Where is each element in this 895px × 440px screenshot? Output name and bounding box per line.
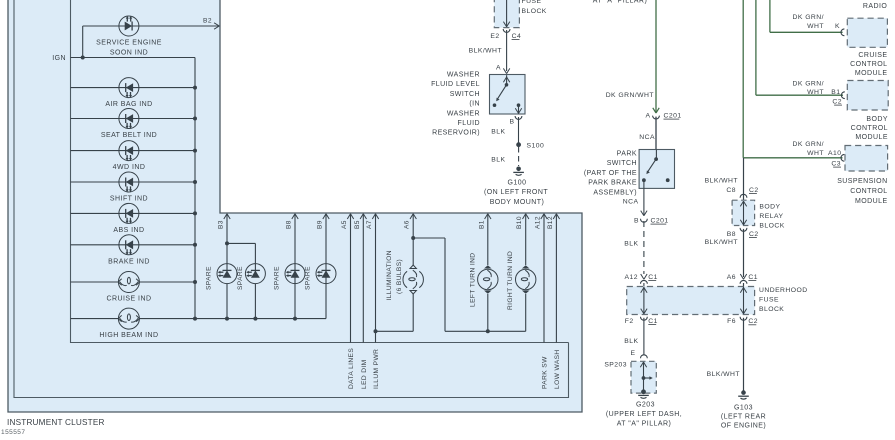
wire inside fuse block <box>506 0 508 27</box>
cup body entry <box>841 92 844 99</box>
cruise control module box <box>847 18 887 47</box>
svg-text:BLK: BLK <box>491 129 505 136</box>
svg-text:BLK/WHT: BLK/WHT <box>707 371 740 378</box>
arrow inside fuse block down <box>503 22 506 27</box>
cup F6 <box>740 317 747 320</box>
svg-text:B2: B2 <box>203 18 212 25</box>
lamp SPARE 1 <box>217 264 237 284</box>
wire B1 down <box>487 214 489 265</box>
svg-text:ILLUMINATION: ILLUMINATION <box>386 250 393 300</box>
wire illum bulb bottom horiz <box>376 330 414 332</box>
svg-text:(6 BULBS): (6 BULBS) <box>396 259 403 294</box>
lamp AIR BAG IND <box>119 78 139 98</box>
svg-text:SWITCH: SWITCH <box>607 160 637 167</box>
svg-text:NCA: NCA <box>639 134 655 141</box>
junction left turn bus <box>486 329 490 333</box>
arrow inside SP203 up <box>640 362 643 367</box>
arrow SP203 right <box>644 377 650 379</box>
junction right bus SHIFT IND <box>193 180 197 184</box>
svg-text:B1: B1 <box>831 89 840 96</box>
svg-text:CONTROL: CONTROL <box>851 125 888 132</box>
svg-text:G100: G100 <box>508 180 527 187</box>
svg-text:HIGH BEAM IND: HIGH BEAM IND <box>99 332 158 339</box>
wire A7 down <box>375 214 377 342</box>
svg-text:C1: C1 <box>648 318 658 325</box>
lamp SERVICE ENGINE SOON IND <box>119 16 139 36</box>
svg-text:RELAY: RELAY <box>759 213 783 220</box>
svg-text:C201: C201 <box>651 218 669 225</box>
svg-text:SUSPENSION: SUSPENSION <box>837 178 887 185</box>
wire park B internal <box>643 180 645 188</box>
svg-text:B9: B9 <box>317 220 324 229</box>
svg-text:WASHER: WASHER <box>447 110 480 117</box>
svg-text:C2: C2 <box>749 187 759 194</box>
wire IGN up to service lamp row <box>82 26 84 58</box>
cluster internals boundary <box>71 0 569 343</box>
wire B5 down <box>362 214 364 342</box>
arrow C201 A <box>653 108 656 113</box>
body control module box <box>847 81 888 111</box>
svg-text:LEFT TURN IND: LEFT TURN IND <box>469 253 476 307</box>
pin B12 arrow <box>553 214 556 219</box>
svg-text:BLOCK: BLOCK <box>522 8 547 15</box>
svg-text:SPARE: SPARE <box>274 266 281 290</box>
svg-text:C1: C1 <box>748 274 758 281</box>
junction illum pwr <box>374 329 378 333</box>
svg-text:BODY MOUNT): BODY MOUNT) <box>490 199 545 206</box>
wire service engine row <box>83 25 219 27</box>
wire A6 branch right <box>413 237 445 239</box>
wire washer B down <box>518 117 520 143</box>
svg-text:AIR BAG IND: AIR BAG IND <box>105 101 152 108</box>
arrow inside brb up <box>740 201 743 206</box>
wire green to suspension horizontal <box>743 157 842 159</box>
cup C201 A <box>653 116 660 119</box>
svg-text:B: B <box>634 218 639 225</box>
svg-text:DK GRN/: DK GRN/ <box>793 81 824 88</box>
wire park switch top <box>655 117 657 150</box>
svg-text:SPARE: SPARE <box>237 266 244 290</box>
svg-text:PARK SW: PARK SW <box>542 356 549 389</box>
svg-text:BLOCK: BLOCK <box>759 223 784 230</box>
wire B8 down <box>294 214 296 318</box>
svg-text:C1: C1 <box>648 274 658 281</box>
fuse block box (top middle) <box>494 0 519 28</box>
svg-text:PARK: PARK <box>617 151 637 158</box>
washer switch pivot <box>505 83 509 87</box>
wire ABS IND row <box>71 212 196 214</box>
suspension control module box <box>845 146 888 172</box>
lamp LEFT TURN IND <box>478 269 498 289</box>
wire SEAT BELT IND row <box>71 118 196 120</box>
svg-text:CRUISE IND: CRUISE IND <box>107 296 152 303</box>
wire inside SP203 <box>643 362 645 392</box>
svg-text:SHIFT IND: SHIFT IND <box>110 196 148 203</box>
svg-text:MODULE: MODULE <box>855 134 888 141</box>
junction B3 branch <box>225 241 229 245</box>
arrow inside fuse right down <box>740 309 743 314</box>
svg-text:E2: E2 <box>490 33 499 40</box>
svg-text:A7: A7 <box>366 220 373 229</box>
svg-text:C4: C4 <box>512 33 522 40</box>
wire inside fuse block left <box>643 287 645 314</box>
wire green to cruise horizontal <box>770 31 843 33</box>
lamp ILLUMINATION <box>403 271 407 287</box>
svg-text:OF ENGINE): OF ENGINE) <box>721 423 766 430</box>
lamp HIGH BEAM IND <box>118 308 139 329</box>
svg-text:C3: C3 <box>831 161 841 168</box>
svg-text:A12: A12 <box>625 274 638 281</box>
svg-text:C2: C2 <box>748 318 758 325</box>
cup C201 B <box>641 219 648 222</box>
washer switch contact B <box>517 103 521 107</box>
wire A12 down <box>543 214 545 342</box>
cup above SP203 <box>641 355 648 358</box>
junction spare1 bus <box>225 317 229 321</box>
wire green to body vertical <box>755 0 757 95</box>
wire B9 down <box>325 214 327 318</box>
lamp CRUISE IND <box>118 272 139 293</box>
svg-text:AT "A" PILLAR): AT "A" PILLAR) <box>593 0 648 5</box>
svg-text:AT "A" PILLAR): AT "A" PILLAR) <box>617 421 672 428</box>
cup below fuse block <box>503 29 510 32</box>
ground G100 <box>516 167 521 172</box>
park switch pivot <box>654 157 658 161</box>
wire right bus vertical <box>194 58 196 319</box>
svg-text:CONTROL: CONTROL <box>850 188 887 195</box>
svg-text:B12: B12 <box>547 216 554 229</box>
wire B12 down <box>555 214 557 342</box>
cup A6 C1 <box>740 280 747 283</box>
wire HIGH BEAM IND row <box>71 318 119 320</box>
wire into body relay block <box>743 194 745 201</box>
svg-text:BRAKE IND: BRAKE IND <box>108 258 150 265</box>
cup below washer box <box>515 116 522 119</box>
svg-text:C2: C2 <box>832 99 842 106</box>
underhood fuse block box <box>627 287 755 315</box>
wire spare2 down <box>254 243 256 273</box>
junction SP203 <box>642 376 646 380</box>
wire illum bulb bottom <box>412 294 414 331</box>
svg-text:4WD IND: 4WD IND <box>113 164 146 171</box>
svg-text:BODY: BODY <box>759 204 780 211</box>
cup cruise entry <box>841 29 844 36</box>
svg-text:A: A <box>646 113 651 120</box>
junction IGN <box>81 56 85 60</box>
wire washer B internal <box>518 105 520 113</box>
arrow A6 C1 <box>740 274 743 279</box>
lamp RIGHT TURN IND <box>516 269 536 289</box>
washer fluid level switch box <box>490 75 526 115</box>
svg-text:C8: C8 <box>726 187 736 194</box>
instrument cluster inner margin line <box>14 0 569 398</box>
svg-text:C2: C2 <box>749 231 759 238</box>
svg-text:IGN: IGN <box>52 55 66 62</box>
svg-text:A10: A10 <box>828 150 841 157</box>
wire washer internal top <box>506 75 508 85</box>
svg-text:FUSE: FUSE <box>759 297 779 304</box>
svg-text:NCA: NCA <box>623 199 639 206</box>
wire BRAKE IND row <box>71 244 196 246</box>
svg-text:G103: G103 <box>734 405 753 412</box>
arrow above washer box <box>503 68 506 73</box>
pin A12 arrow <box>541 214 544 219</box>
svg-text:UNDERHOOD: UNDERHOOD <box>759 287 808 294</box>
junction spare3 bus <box>293 317 297 321</box>
svg-text:SWITCH: SWITCH <box>450 91 480 98</box>
junction right bus AIR BAG IND <box>193 86 197 90</box>
svg-text:B8: B8 <box>286 220 293 229</box>
svg-text:BLK/WHT: BLK/WHT <box>469 48 502 55</box>
pin A6 arrow <box>410 214 413 219</box>
instrument cluster box fill <box>8 0 582 412</box>
wire into underhood fuse right <box>743 283 745 287</box>
lamp SPARE 4 <box>316 264 336 284</box>
svg-text:FLUID LEVEL: FLUID LEVEL <box>431 81 480 88</box>
svg-text:RIGHT TURN IND: RIGHT TURN IND <box>507 251 514 310</box>
svg-text:LED DIM: LED DIM <box>361 359 368 389</box>
svg-text:(UPPER LEFT DASH,: (UPPER LEFT DASH, <box>606 411 682 418</box>
wire inside body relay block <box>743 201 745 225</box>
wire 4WD IND row <box>71 150 196 152</box>
wire left turn bottom <box>487 294 489 331</box>
wire spare branch right <box>227 242 255 244</box>
arrow A12 C1 <box>641 274 644 279</box>
cup B8 <box>740 228 747 231</box>
svg-text:BODY: BODY <box>866 116 888 123</box>
wire A6 down <box>412 214 414 265</box>
svg-text:WHT: WHT <box>807 89 824 96</box>
svg-text:B3: B3 <box>218 220 225 229</box>
pin B2 arrow <box>214 23 219 26</box>
wire right turn bottom <box>525 294 527 331</box>
svg-text:BLOCK: BLOCK <box>759 306 784 313</box>
ground G103 <box>741 390 746 395</box>
junction right bus ABS IND <box>193 211 197 215</box>
svg-text:ASSEMBLY): ASSEMBLY) <box>593 189 637 196</box>
svg-text:B1: B1 <box>478 220 485 229</box>
washer switch blade <box>497 85 506 99</box>
svg-text:PARK BRAKE: PARK BRAKE <box>588 180 637 187</box>
lamp SPARE 2 <box>245 264 265 284</box>
svg-text:A6: A6 <box>727 274 736 281</box>
wire spare1 to bus <box>226 284 228 319</box>
wire turn bus <box>445 330 526 332</box>
wire park internal top <box>655 150 657 160</box>
pin A7 arrow <box>372 214 375 219</box>
wire A5 down <box>350 214 352 342</box>
svg-text:155557: 155557 <box>1 429 25 436</box>
wire green to suspension vertical <box>742 0 744 158</box>
svg-text:(IN: (IN <box>469 101 480 108</box>
park switch contact left <box>642 178 646 182</box>
arrow C201 B <box>641 211 644 216</box>
arrow inside washer box down <box>515 108 518 113</box>
svg-text:A: A <box>496 65 501 72</box>
lamp ABS IND <box>119 203 139 223</box>
wire BLK/WHT down to washer switch <box>506 30 508 71</box>
splice S100 <box>516 142 521 147</box>
wire DK GRN/WHT from top <box>655 0 657 113</box>
svg-text:WHT: WHT <box>807 23 824 30</box>
svg-text:BLK: BLK <box>624 241 638 248</box>
svg-text:BLK: BLK <box>491 157 505 164</box>
svg-text:K: K <box>835 23 840 30</box>
wire B3 down <box>226 214 228 273</box>
svg-text:F2: F2 <box>625 318 634 325</box>
body relay block box <box>732 200 755 225</box>
svg-text:A6: A6 <box>404 220 411 229</box>
wire green to cruise vertical <box>769 0 771 32</box>
park switch blade <box>648 159 657 172</box>
cup C8 <box>740 194 747 197</box>
wire green to body horizontal <box>756 94 843 96</box>
svg-text:C201: C201 <box>664 113 682 120</box>
washer switch contact left <box>493 103 497 107</box>
pin B1 arrow <box>485 214 488 219</box>
svg-text:DATA LINES: DATA LINES <box>348 348 355 389</box>
svg-text:SP203: SP203 <box>604 362 627 369</box>
pin B3 arrow <box>224 214 227 219</box>
svg-text:DK GRN/: DK GRN/ <box>793 141 824 148</box>
svg-text:MODULE: MODULE <box>855 198 888 205</box>
svg-text:B10: B10 <box>516 216 523 229</box>
svg-text:B5: B5 <box>354 220 361 229</box>
wire AIR BAG IND row <box>71 87 196 89</box>
svg-text:(PART OF THE: (PART OF THE <box>584 170 637 177</box>
arrow inside fuse left up <box>641 288 644 293</box>
wire bus to spare lamps <box>195 318 326 320</box>
wire BLK/WHT to G103 <box>743 318 745 391</box>
pin A5 arrow <box>347 214 350 219</box>
svg-text:RESERVOIR): RESERVOIR) <box>432 130 480 137</box>
svg-text:ILLUM PWR: ILLUM PWR <box>373 349 380 389</box>
park switch box <box>639 150 674 189</box>
junction right bus 4WD IND <box>193 149 197 153</box>
svg-text:ABS IND: ABS IND <box>113 227 144 234</box>
wire SHIFT IND row <box>71 181 196 183</box>
instrument cluster outer border <box>8 0 582 412</box>
svg-text:INSTRUMENT CLUSTER: INSTRUMENT CLUSTER <box>7 418 105 427</box>
cup susp entry <box>841 154 844 161</box>
wire park B below box <box>643 188 645 215</box>
park switch contact right <box>666 178 670 182</box>
svg-text:FUSE: FUSE <box>522 0 542 5</box>
cup below F2 <box>641 317 648 320</box>
ground G203 <box>641 389 646 394</box>
wire A6 branch down <box>444 238 446 331</box>
pin B8 arrow <box>292 214 295 219</box>
splice box SP203 <box>631 361 656 393</box>
wire inside fuse block right <box>743 287 745 314</box>
svg-text:DK GRN/: DK GRN/ <box>793 14 824 21</box>
lamp SHIFT IND <box>119 172 139 192</box>
svg-text:B: B <box>510 119 515 126</box>
pin B9 arrow <box>323 214 326 219</box>
svg-text:BLK/WHT: BLK/WHT <box>705 239 738 246</box>
svg-text:E: E <box>631 350 636 357</box>
wire BLK dashed to A12 <box>643 221 645 274</box>
junction right bus BRAKE IND <box>193 243 197 247</box>
arrow inside washer box up <box>503 77 506 82</box>
wire into underhood fuse block left <box>643 283 645 287</box>
lamp 4WD IND <box>119 141 139 161</box>
svg-text:BLK: BLK <box>624 338 638 345</box>
svg-text:WHT: WHT <box>807 150 824 157</box>
pin B10 arrow <box>523 214 526 219</box>
svg-text:LOW WASH: LOW WASH <box>554 349 561 389</box>
svg-text:A12: A12 <box>535 216 542 229</box>
svg-text:SEAT BELT IND: SEAT BELT IND <box>101 132 157 139</box>
svg-text:(ON LEFT FRONT: (ON LEFT FRONT <box>484 189 548 196</box>
arrow inside fuse left down <box>641 309 644 314</box>
wire BLK/WHT mid <box>743 229 745 277</box>
junction right bus CRUISE IND <box>193 280 197 284</box>
pin B5 arrow <box>360 214 363 219</box>
svg-text:SPARE: SPARE <box>305 266 312 290</box>
svg-text:CONTROL: CONTROL <box>850 61 887 68</box>
svg-text:DK GRN/WHT: DK GRN/WHT <box>606 92 654 99</box>
lamp SEAT BELT IND <box>119 109 139 129</box>
svg-text:FLUID: FLUID <box>458 120 480 127</box>
wire B10 down <box>525 214 527 265</box>
wire BLK/WHT top <box>743 158 745 194</box>
lamp BRAKE IND <box>119 235 139 255</box>
svg-text:SPARE: SPARE <box>206 266 213 290</box>
svg-text:CRUISE: CRUISE <box>858 52 887 59</box>
junction right bus SEAT BELT IND <box>193 117 197 121</box>
junction right bus HIGH BEAM IND <box>193 317 197 321</box>
lamp SPARE 3 <box>285 264 305 284</box>
svg-text:A5: A5 <box>341 220 348 229</box>
svg-text:SERVICE ENGINE: SERVICE ENGINE <box>96 40 162 47</box>
cup A12 C1 <box>641 280 648 283</box>
wire S100 to G100 dashed <box>518 147 520 166</box>
wire CRUISE IND row <box>71 281 119 283</box>
wire BLK to SP203 <box>643 318 645 355</box>
svg-text:BLK/WHT: BLK/WHT <box>705 178 738 185</box>
arrow inside fuse right up <box>740 288 743 293</box>
svg-text:MODULE: MODULE <box>855 70 888 77</box>
junction A6 branch <box>411 236 415 240</box>
svg-text:S100: S100 <box>527 143 545 150</box>
svg-text:SOON IND: SOON IND <box>110 50 148 57</box>
svg-text:WASHER: WASHER <box>447 72 480 79</box>
junction spare2 bus <box>253 317 257 321</box>
svg-text:(LEFT REAR: (LEFT REAR <box>721 414 766 421</box>
svg-text:G203: G203 <box>636 402 655 409</box>
arrow inside brb down <box>740 220 743 225</box>
svg-text:F6: F6 <box>727 318 736 325</box>
svg-text:RADIO: RADIO <box>863 3 888 10</box>
wire IGN horizontal <box>71 57 196 59</box>
wire spare2 to bus <box>254 284 256 319</box>
svg-text:B8: B8 <box>727 231 736 238</box>
